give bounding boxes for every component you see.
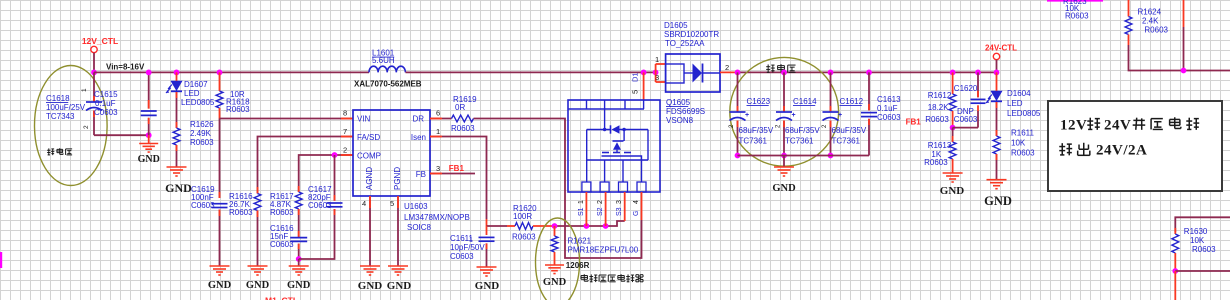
svg-text:R1626: R1626	[190, 120, 214, 129]
node junction C1620 top	[975, 70, 981, 76]
node junction R1612	[950, 70, 956, 76]
wire AGND pin 4	[369, 196, 371, 266]
svg-text:1: 1	[81, 88, 88, 92]
pin S3	[624, 192, 626, 221]
svg-text:Isen: Isen	[411, 133, 426, 142]
wire LED D1604 stub	[996, 72, 998, 91]
svg-text:C1620: C1620	[954, 84, 978, 93]
node junction R1630	[1172, 268, 1178, 274]
wire diode out	[720, 71, 738, 73]
svg-text:GND: GND	[138, 154, 160, 165]
svg-text:C0603: C0603	[450, 252, 474, 261]
capacitor C1617	[327, 202, 343, 204]
svg-text:+: +	[838, 112, 842, 119]
svg-text:C0603: C0603	[270, 240, 294, 249]
wire R1616 to gnd	[257, 211, 259, 267]
node junction R1621	[552, 223, 558, 229]
svg-text:SOIC8: SOIC8	[407, 223, 432, 232]
node junction C1617 comp	[332, 152, 338, 158]
ground GND R1613	[943, 172, 963, 174]
capacitor C1623	[737, 72, 739, 112]
wire FA/SD rail	[258, 137, 354, 194]
svg-text:24V: 24V	[1104, 118, 1131, 134]
svg-text:C0603: C0603	[94, 108, 118, 117]
ground GND AGND	[360, 265, 380, 267]
capacitor C1618	[93, 72, 95, 102]
svg-text:COMP: COMP	[357, 152, 381, 161]
svg-text:R0603: R0603	[512, 233, 536, 242]
resistor R1611	[993, 136, 1000, 154]
ellipse sense resistor highlight	[536, 218, 580, 300]
wire output gnd rail	[738, 155, 870, 157]
wire right vertical	[1183, 0, 1185, 27]
wire R1612 low	[952, 111, 954, 128]
svg-text:GND: GND	[208, 280, 232, 291]
wire D1604 to R1611	[996, 102, 998, 136]
wire R1630 down	[1174, 271, 1176, 300]
svg-text:GND: GND	[358, 280, 383, 292]
svg-text:GND: GND	[475, 280, 500, 292]
label tantalum cap (CJK)	[48, 148, 50, 155]
svg-text:TC7361: TC7361	[739, 137, 768, 146]
svg-text:C1623: C1623	[747, 97, 771, 106]
svg-text:2.49K: 2.49K	[190, 129, 212, 138]
svg-text:3: 3	[436, 164, 440, 173]
svg-text:C0603: C0603	[877, 113, 901, 122]
wire VIN rail	[220, 118, 354, 120]
node junction diode in	[653, 70, 659, 76]
LED D1607	[171, 81, 182, 91]
node junction S2	[603, 223, 609, 229]
svg-text:10pF/50V: 10pF/50V	[450, 243, 485, 252]
wire Isen route	[430, 137, 487, 220]
wire drain riser	[643, 72, 645, 100]
ground GND output	[783, 156, 785, 168]
svg-text:D1607: D1607	[184, 80, 208, 89]
svg-text:C1615: C1615	[94, 90, 118, 99]
wire gate route	[474, 119, 642, 259]
wire C1619 to gnd	[219, 210, 221, 267]
svg-text:GND: GND	[543, 277, 567, 288]
svg-text:R0603: R0603	[270, 208, 294, 217]
svg-text:5: 5	[390, 199, 394, 208]
svg-text:M1_CTL: M1_CTL	[265, 296, 298, 300]
svg-text:R0603: R0603	[925, 115, 949, 124]
svg-text:6: 6	[436, 109, 440, 118]
wire R1618 branch	[219, 72, 221, 91]
ground GND R1626	[167, 166, 187, 168]
svg-text:12V: 12V	[1060, 118, 1087, 134]
wire to R1613	[952, 128, 954, 142]
svg-text:FB1: FB1	[449, 164, 465, 173]
svg-text:Q1605: Q1605	[666, 98, 691, 107]
node junction C1623 bottom	[735, 153, 741, 159]
svg-text:U1603: U1603	[404, 202, 428, 211]
svg-text:C1613: C1613	[877, 95, 901, 104]
svg-text:GND: GND	[246, 280, 270, 291]
svg-text:100R: 100R	[513, 212, 532, 221]
svg-text:SBRD10200TR: SBRD10200TR	[664, 30, 719, 39]
capacitor C1612	[830, 72, 832, 112]
svg-text:R1611: R1611	[1011, 129, 1035, 138]
svg-text:AGND: AGND	[365, 167, 374, 190]
capacitor C1616	[290, 237, 307, 239]
node junction C1623 top	[735, 70, 741, 76]
ground GND C1619	[210, 265, 230, 267]
wire R1630 net top	[1175, 217, 1230, 232]
svg-text:2: 2	[597, 200, 604, 204]
svg-text:C0603: C0603	[954, 115, 978, 124]
svg-text:1206R: 1206R	[566, 261, 590, 270]
svg-text:R0603: R0603	[229, 208, 253, 217]
title text line 2	[1061, 143, 1063, 155]
svg-text:C0603: C0603	[308, 201, 332, 210]
svg-text:GND: GND	[984, 194, 1012, 208]
svg-text:2: 2	[725, 63, 729, 72]
capacitor C1614	[783, 72, 785, 112]
op-amp U1603 LM3478 body	[353, 110, 430, 196]
wire R1617 to C1616	[298, 209, 300, 237]
resistor R1621 sense	[554, 226, 556, 236]
node junction C1614 top	[781, 70, 787, 76]
svg-text:LED: LED	[1007, 99, 1023, 108]
svg-text:R0603: R0603	[226, 105, 250, 114]
label tantalum cap output (CJK)	[767, 64, 769, 72]
svg-text:D1605: D1605	[664, 21, 688, 30]
svg-text:TC7343: TC7343	[46, 112, 75, 121]
wire R1618 to VIN rail	[219, 108, 221, 119]
svg-text:0.1uF: 0.1uF	[95, 99, 116, 108]
svg-text:FA/SD: FA/SD	[357, 133, 380, 142]
svg-text:+: +	[745, 112, 749, 119]
svg-text:S3: S3	[616, 207, 623, 216]
svg-text:TC7361: TC7361	[832, 137, 861, 146]
svg-text:8: 8	[343, 109, 347, 118]
svg-text:R0603: R0603	[190, 138, 214, 147]
svg-text:18.2K: 18.2K	[928, 103, 950, 112]
label current sense resistor (CJK)	[581, 275, 587, 277]
svg-text:DR: DR	[412, 115, 424, 124]
svg-text:1: 1	[578, 200, 585, 204]
wire C1616 to node	[298, 244, 300, 259]
svg-text:3: 3	[616, 200, 623, 204]
capacitor C1615	[141, 110, 157, 112]
transistor Q1605 body	[568, 100, 660, 192]
svg-text:GND: GND	[287, 280, 311, 291]
svg-text:0.1uF: 0.1uF	[877, 104, 898, 113]
node junction C1612 top	[828, 70, 834, 76]
wire R1626 to gnd	[176, 145, 178, 167]
ground GND R1621	[545, 264, 564, 266]
ground GND D1604	[987, 179, 1007, 181]
resistor R1626	[173, 128, 180, 145]
svg-text:2.4K: 2.4K	[1142, 17, 1159, 26]
svg-text:FDS6699S: FDS6699S	[666, 107, 705, 116]
resistor R1617	[295, 192, 302, 209]
node junction R1612 C1620	[950, 125, 956, 131]
svg-text:10K: 10K	[1190, 236, 1205, 245]
svg-text:GND: GND	[940, 185, 965, 197]
svg-text:7: 7	[343, 127, 347, 136]
wire LED to R1626	[176, 92, 178, 128]
wire bottom left rail	[94, 134, 149, 136]
node junction S1	[584, 223, 590, 229]
ground GND C1616	[289, 265, 309, 267]
svg-text:G: G	[633, 211, 640, 216]
svg-text:+: +	[792, 112, 796, 119]
svg-text:GND: GND	[165, 181, 192, 195]
resistor R1613	[949, 142, 956, 159]
svg-text:GND: GND	[387, 280, 412, 292]
wire output bus	[738, 71, 997, 73]
ground GND C1615	[148, 135, 150, 143]
svg-text:R1613: R1613	[928, 141, 952, 150]
wire C1617 branch	[334, 155, 336, 201]
resistor R1624	[1128, 0, 1130, 17]
wire R1611 gnd	[996, 154, 998, 180]
node junction 24V	[994, 70, 1000, 76]
wire COMP rail	[299, 155, 353, 192]
svg-text:R1630: R1630	[1184, 227, 1208, 236]
svg-text:5: 5	[631, 90, 640, 94]
svg-text:4: 4	[633, 200, 640, 204]
diode D1605 body	[666, 54, 720, 92]
svg-text:Vin=8-16V: Vin=8-16V	[106, 63, 145, 72]
wire sense rail	[487, 225, 508, 227]
svg-text:R0603: R0603	[924, 158, 948, 167]
svg-text:68uF/35V: 68uF/35V	[832, 126, 867, 135]
svg-text:24V/2A: 24V/2A	[1096, 143, 1147, 159]
wire R1613 gnd	[952, 159, 954, 173]
resistor R1619	[452, 115, 474, 122]
svg-text:XAL7070-562MEB: XAL7070-562MEB	[354, 80, 422, 89]
node junction drain riser	[641, 70, 647, 76]
LED D1604	[991, 91, 1002, 101]
svg-text:3: 3	[655, 73, 659, 82]
node junction R1618	[217, 70, 223, 76]
wire main bus mid	[406, 71, 656, 73]
wire port stem	[93, 53, 95, 73]
wire C1620 bottom	[953, 127, 978, 129]
svg-text:R1621: R1621	[568, 237, 592, 246]
resistor R1623 labels (clipped)	[1047, 0, 1103, 2]
svg-text:1: 1	[436, 127, 440, 136]
wire main bus left	[94, 71, 369, 73]
svg-text:S1: S1	[578, 207, 585, 216]
node junction C1615 top	[146, 70, 152, 76]
resistor R1612	[949, 94, 956, 111]
svg-text:C1612: C1612	[840, 97, 864, 106]
svg-text:100uF/25V: 100uF/25V	[46, 103, 86, 112]
wire diode pins	[655, 64, 657, 82]
svg-text:68uF/35V: 68uF/35V	[785, 126, 820, 135]
wire R1630 net right	[1175, 270, 1230, 272]
svg-text:PMR18EZPFU7L00: PMR18EZPFU7L00	[568, 246, 639, 255]
pin G	[641, 192, 643, 220]
wire R1624 net	[1129, 45, 1230, 71]
resistor R1630	[1174, 228, 1176, 234]
resistor R1616	[254, 194, 261, 211]
svg-text:C0603: C0603	[191, 201, 215, 210]
wire FB pin	[430, 173, 475, 175]
svg-text:D1: D1	[631, 72, 640, 82]
wire PGND pin 5	[397, 196, 399, 266]
inductor L1601	[369, 66, 405, 72]
capacitor C1620	[977, 72, 979, 97]
wire sense rail 2	[533, 225, 556, 227]
wire gnd stem	[298, 259, 300, 266]
svg-text:GND: GND	[772, 183, 796, 194]
capacitor C1611	[486, 226, 488, 235]
node junction right	[1181, 68, 1187, 74]
svg-text:R0603: R0603	[1011, 149, 1035, 158]
node junction C1612 bottom	[828, 153, 834, 159]
wire LED branch	[176, 72, 178, 81]
wire 24V stem	[996, 60, 998, 73]
node junction comp gnd	[296, 256, 302, 262]
svg-text:4: 4	[362, 199, 366, 208]
ellipse tantalum highlight C1618	[35, 66, 108, 186]
svg-text:C1611: C1611	[450, 234, 474, 243]
svg-text:LED: LED	[184, 89, 200, 98]
svg-text:C1618: C1618	[46, 94, 70, 103]
node junction D1607	[174, 70, 180, 76]
svg-text:PGND: PGND	[393, 167, 402, 190]
svg-text:12V_CTL: 12V_CTL	[82, 36, 118, 46]
svg-text:D1604: D1604	[1007, 89, 1031, 98]
svg-text:10K: 10K	[1011, 139, 1026, 148]
wire R1612 stub	[952, 72, 954, 94]
pin S2	[605, 192, 607, 226]
capacitor C1619	[212, 203, 228, 205]
svg-text:FB1: FB1	[906, 118, 922, 127]
ground GND C1611	[477, 266, 497, 268]
clipped port left edge	[0, 252, 2, 268]
svg-text:LED0805: LED0805	[1007, 109, 1041, 118]
ground GND PGND	[388, 265, 408, 267]
svg-text:R0603: R0603	[1065, 12, 1089, 21]
wire down to C1619	[219, 119, 221, 199]
svg-text:S2: S2	[597, 207, 604, 216]
svg-text:68uF/35V: 68uF/35V	[739, 126, 774, 135]
node junction 12V input	[91, 70, 97, 76]
svg-text:0R: 0R	[455, 103, 465, 112]
resistor R1620	[515, 223, 533, 230]
svg-text:1: 1	[655, 55, 659, 64]
svg-text:R0603: R0603	[1144, 26, 1168, 35]
svg-text:TC7361: TC7361	[785, 137, 814, 146]
pin S1	[585, 192, 587, 226]
resistor R1618	[216, 91, 223, 108]
ground GND R1616	[248, 265, 268, 267]
svg-text:2: 2	[83, 125, 90, 129]
svg-text:LED0805: LED0805	[181, 98, 215, 107]
svg-text:24V-CTL: 24V-CTL	[985, 44, 1017, 53]
node junction C1614 bottom	[781, 153, 787, 159]
svg-text:5.6UH: 5.6UH	[372, 56, 395, 65]
svg-text:FB: FB	[416, 170, 426, 179]
node junction C1615 gnd	[146, 132, 152, 138]
svg-text:LM3478MX/NOPB: LM3478MX/NOPB	[404, 213, 470, 222]
svg-text:2: 2	[343, 146, 347, 155]
wire C1615 branch	[148, 72, 150, 108]
wire C1617 to comp gnd node	[299, 209, 335, 259]
svg-text:VIN: VIN	[357, 115, 371, 124]
node junction C1613	[866, 70, 872, 76]
svg-text:R0603: R0603	[451, 124, 475, 133]
svg-text:R1624: R1624	[1138, 8, 1162, 17]
svg-text:C1614: C1614	[793, 97, 817, 106]
title box 12V to 24V boost	[1048, 101, 1222, 191]
ellipse tantalum highlight output	[730, 57, 839, 166]
capacitor C1613	[868, 72, 870, 110]
svg-text:TO_252AA: TO_252AA	[665, 39, 705, 48]
svg-text:R1612: R1612	[928, 91, 952, 100]
wire DR pin	[430, 118, 452, 120]
svg-text:R0603: R0603	[1192, 245, 1216, 254]
svg-text:VSON8: VSON8	[666, 116, 694, 125]
